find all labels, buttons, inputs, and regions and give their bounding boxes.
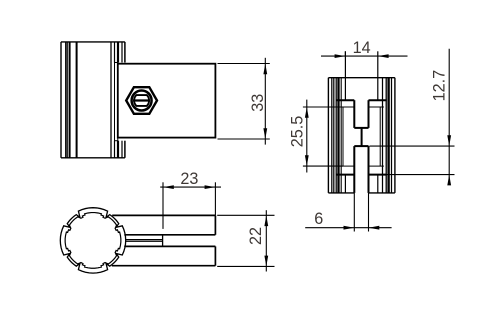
svg-text:12.7: 12.7 — [430, 70, 448, 102]
svg-text:6: 6 — [314, 210, 323, 228]
svg-text:25.5: 25.5 — [288, 116, 306, 148]
svg-text:22: 22 — [247, 227, 265, 245]
svg-text:14: 14 — [353, 39, 371, 57]
svg-text:23: 23 — [180, 170, 198, 188]
svg-text:33: 33 — [249, 94, 267, 112]
